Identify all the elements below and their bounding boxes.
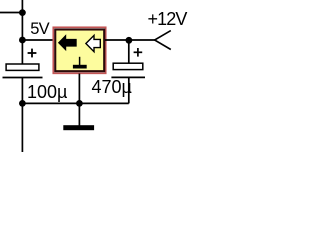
- wire C2 top lead: [128, 40, 130, 64]
- capacitor C2 positive plate (open box): [113, 63, 143, 69]
- regulator U1 ground pin bar: [73, 65, 87, 69]
- regulator U1 input arrow (solid black, pointing left): [58, 34, 77, 51]
- ground symbol bar: [63, 125, 94, 130]
- node junction at top-left rail: [19, 9, 26, 16]
- regulator U1 outer highlight frame: [53, 27, 105, 73]
- capacitor C1 positive plate (open box): [6, 64, 39, 70]
- capacitor C1 negative plate: [3, 77, 43, 79]
- wire regulator output to +12V connector: [105, 39, 155, 41]
- node junction 5V wire / left bus: [19, 37, 26, 44]
- wire C2 bottom lead down to ground rail corner: [128, 77, 130, 103]
- node junction ground rail / left bus: [19, 100, 26, 107]
- node junction output wire / C2: [125, 37, 132, 44]
- capacitor C2 polarity +: [134, 48, 143, 57]
- svg-text:100µ: 100µ: [27, 82, 67, 102]
- wire top-left horizontal (5V rail stub to left edge): [0, 12, 24, 14]
- wire left vertical bus (upper section, to C1 top plate): [21, 0, 23, 64]
- node junction ground rail / regulator ground: [76, 100, 83, 107]
- regulator U1 body (yellow box): [55, 30, 104, 72]
- capacitor C1 polarity +: [28, 49, 37, 58]
- connector +12V (open arrow): [155, 31, 171, 50]
- svg-text:+12V: +12V: [148, 9, 188, 29]
- svg-text:5V: 5V: [30, 20, 49, 38]
- regulator U1 ground pin stub: [79, 57, 81, 65]
- svg-text:470µ: 470µ: [92, 77, 132, 97]
- wire ground rail horizontal: [22, 102, 129, 104]
- wire regulator ground pin down to ground symbol: [78, 74, 80, 127]
- capacitor C2 negative plate: [111, 76, 145, 78]
- wire left vertical bus (lower section, below C1 to bottom edge): [21, 78, 23, 153]
- regulator U1 output arrow (open white, pointing left): [86, 35, 100, 51]
- wire 5V input to regulator left pin: [22, 39, 54, 41]
